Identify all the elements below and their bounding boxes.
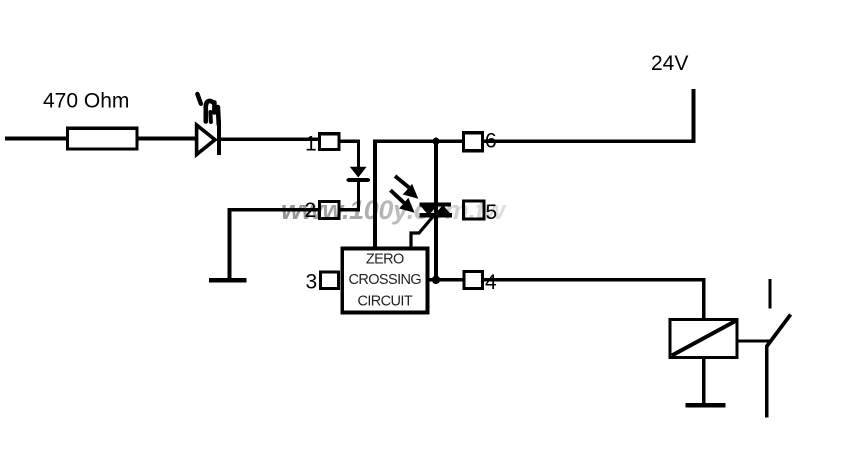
- triac Q1: [420, 205, 453, 216]
- svg-text:CIRCUIT: CIRCUIT: [357, 294, 412, 310]
- pin 5: [464, 201, 485, 219]
- svg-text:24V: 24V: [651, 52, 688, 75]
- LED D1: [197, 94, 219, 155]
- pin 3: [321, 272, 339, 289]
- wire: [339, 181, 359, 210]
- wire: [411, 217, 433, 249]
- wire: [230, 208, 322, 211]
- pin 4: [464, 272, 483, 289]
- relay K1: [670, 320, 737, 358]
- svg-text:www.100y.com.tw: www.100y.com.tw: [281, 195, 507, 225]
- svg-text:470 Ohm: 470 Ohm: [43, 90, 129, 113]
- node B: [432, 276, 440, 284]
- photo arrows: [390, 176, 418, 213]
- ground: [209, 278, 247, 282]
- svg-text:CROSSING: CROSSING: [349, 272, 422, 288]
- wire: [339, 141, 359, 168]
- pin 2: [320, 202, 340, 219]
- svg-text:6: 6: [485, 130, 497, 153]
- zero crossing circuit U1: [342, 249, 427, 313]
- resistor R1: [68, 128, 138, 149]
- svg-text:1: 1: [305, 133, 317, 156]
- wire: [220, 138, 320, 141]
- pin 1: [320, 134, 340, 150]
- pin 6: [464, 133, 483, 151]
- wire: [427, 280, 704, 320]
- wire: [136, 137, 197, 141]
- svg-text:4: 4: [485, 271, 497, 294]
- node A: [432, 138, 439, 145]
- wire: [702, 356, 706, 403]
- wire: [5, 137, 68, 141]
- diode D2: [348, 167, 368, 180]
- wire: [375, 89, 694, 248]
- switch S1: [767, 279, 791, 418]
- svg-text:ZERO: ZERO: [366, 252, 404, 268]
- wire: [737, 339, 770, 342]
- wire: [434, 141, 438, 280]
- wire: [228, 208, 232, 280]
- ground: [686, 403, 726, 407]
- svg-text:3: 3: [306, 271, 318, 294]
